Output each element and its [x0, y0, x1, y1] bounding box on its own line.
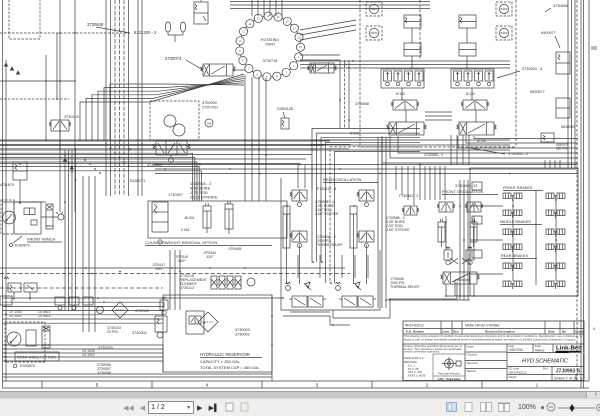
svg-text:3730718: 3730718 — [263, 59, 278, 63]
svg-text:3730848: 3730848 — [87, 22, 104, 27]
svg-text:unless otherwise specified.: unless otherwise specified. — [404, 351, 440, 354]
svg-text:By: By — [562, 330, 566, 334]
svg-text:Weight: Weight — [509, 375, 517, 379]
svg-text:BRAKE: BRAKE — [46, 225, 54, 228]
svg-text:1X 1010: 1X 1010 — [82, 353, 95, 357]
svg-text:1730947: 1730947 — [168, 193, 183, 197]
svg-text:3730023: 3730023 — [235, 328, 250, 332]
svg-text:REAR WINCH OPTION: REAR WINCH OPTION — [17, 356, 56, 360]
svg-text:3730212: 3730212 — [180, 286, 194, 290]
svg-text:NR37402012: NR37402012 — [405, 324, 424, 328]
svg-text:3730898: 3730898 — [355, 102, 369, 106]
svg-text:3730058: 3730058 — [97, 371, 111, 375]
svg-text:3730955 - 2: 3730955 - 2 — [424, 153, 443, 157]
svg-text:4: 4 — [206, 383, 209, 388]
svg-text:3730896: 3730896 — [553, 4, 568, 8]
svg-text:JOINT: JOINT — [265, 43, 276, 47]
svg-text:3790055: 3790055 — [202, 101, 217, 105]
svg-text:REAR BRAKES: REAR BRAKES — [501, 254, 528, 258]
svg-text:3730955 - 2: 3730955 - 2 — [508, 152, 528, 156]
svg-text:FRONT WINCH: FRONT WINCH — [27, 237, 55, 242]
svg-text:Approved: Approved — [467, 361, 479, 365]
svg-text:Check: Check — [575, 330, 584, 334]
svg-text:3730103: 3730103 — [64, 115, 79, 119]
svg-text:22.25 STROKE: 22.25 STROKE — [190, 195, 218, 200]
svg-text:FRONT BRAKES: FRONT BRAKES — [503, 186, 533, 190]
svg-text:R330879: R330879 — [15, 244, 30, 248]
svg-text:TOTAL SYSTEM CAP = 360 GAL: TOTAL SYSTEM CAP = 360 GAL — [200, 365, 260, 370]
svg-text:2700 PSI: 2700 PSI — [202, 106, 218, 110]
svg-text:3740449 - 12: 3740449 - 12 — [455, 184, 477, 188]
svg-text:350 PSI: 350 PSI — [556, 147, 567, 151]
svg-text:ROTATING: ROTATING — [261, 38, 279, 42]
svg-text:48.001: 48.001 — [184, 216, 194, 220]
svg-text:3730924 - 6: 3730924 - 6 — [522, 67, 542, 71]
svg-text:110°: 110° — [206, 254, 214, 259]
svg-text:Ø.190: Ø.190 — [350, 132, 359, 136]
svg-text:THERMAL RELIEF: THERMAL RELIEF — [390, 285, 420, 289]
svg-text:3730074: 3730074 — [165, 56, 182, 61]
svg-text:Zone: Zone — [442, 330, 449, 334]
svg-text:None: None — [535, 348, 545, 353]
svg-text:J7J0993 S: J7J0993 S — [556, 369, 581, 375]
svg-text:NR37402012: NR37402012 — [509, 371, 527, 375]
svg-text:Ø.130: Ø.130 — [466, 92, 475, 96]
svg-text:Ø.130: Ø.130 — [396, 92, 405, 96]
svg-text:Third Angle Projection: Third Angle Projection — [438, 373, 461, 376]
svg-text:MIDDLE BRAKES: MIDDLE BRAKES — [500, 220, 531, 224]
svg-text:REAR OSCILLATION: REAR OSCILLATION — [323, 177, 361, 182]
svg-text:1: 1 — [536, 383, 539, 388]
svg-text:COUNTERWEIGHT REMOVAL OPTION: COUNTERWEIGHT REMOVAL OPTION — [145, 240, 217, 245]
svg-text:2: 2 — [426, 383, 429, 388]
svg-text:2M: 2M — [207, 122, 212, 126]
svg-text:4711675: 4711675 — [0, 183, 14, 187]
svg-text:Material: Material — [467, 369, 477, 373]
svg-text:MADE FROM J7J0956S: MADE FROM J7J0956S — [465, 324, 500, 328]
svg-text:S: S — [580, 377, 583, 381]
svg-text:Date: Date — [548, 330, 555, 334]
svg-text:A: A — [593, 327, 596, 331]
svg-text:Rev: Rev — [453, 330, 459, 334]
svg-text:4.50" STROKE: 4.50" STROKE — [315, 212, 339, 216]
svg-text:3: 3 — [316, 383, 319, 388]
svg-text:HYD SCHEMATIC: HYD SCHEMATIC — [522, 358, 569, 364]
svg-text:Link-Belt: Link-Belt — [556, 346, 582, 352]
svg-text:J7R0408: J7R0408 — [228, 247, 241, 251]
svg-text:Drawn: Drawn — [467, 345, 475, 349]
svg-text:Checked: Checked — [467, 353, 478, 357]
svg-text:D3R0126: D3R0126 — [277, 107, 293, 111]
svg-text:4/30/2010: 4/30/2010 — [509, 348, 523, 352]
svg-text:6900677: 6900677 — [541, 31, 556, 35]
svg-text:BRAKE: BRAKE — [42, 344, 50, 347]
svg-text:F730412 - 4: F730412 - 4 — [317, 187, 336, 191]
svg-text:Ø.190: Ø.190 — [477, 139, 486, 143]
svg-text:6900677: 6900677 — [530, 90, 545, 94]
svg-text:110°: 110° — [178, 258, 186, 263]
svg-text:E830171: E830171 — [130, 179, 145, 183]
svg-text:.XXXX ± .0005: .XXXX ± .0005 — [407, 373, 426, 377]
svg-text:Sheet 1 of 2: Sheet 1 of 2 — [554, 376, 576, 381]
svg-text:HYDRAULIC RESERVOIR: HYDRAULIC RESERVOIR — [200, 352, 250, 357]
svg-text:3730001: 3730001 — [235, 333, 250, 337]
svg-text:3740002: 3740002 — [132, 331, 147, 335]
svg-text:4700122: 4700122 — [135, 309, 149, 313]
svg-text:6131200 - 2: 6131200 - 2 — [134, 30, 157, 35]
svg-text:190°: 190° — [155, 266, 164, 271]
svg-text:3730169: 3730169 — [98, 346, 113, 350]
svg-text:Rev: Rev — [543, 367, 548, 371]
svg-text:R330878: R330878 — [20, 364, 35, 368]
svg-text:Revision Description: Revision Description — [485, 330, 515, 334]
svg-text:5: 5 — [96, 383, 99, 388]
svg-text:E.O. Number: E.O. Number — [406, 330, 425, 334]
svg-text:CAPACITY = 250 GAL: CAPACITY = 250 GAL — [200, 359, 241, 364]
svg-text:whole or part, of design and d: whole or part, of design and details con… — [404, 337, 576, 341]
svg-text:0.051: 0.051 — [181, 228, 190, 232]
svg-text:CAD - Solid Edge: CAD - Solid Edge — [438, 377, 461, 381]
svg-text:Construction Equipment: Construction Equipment — [569, 351, 589, 354]
svg-text:THERM RELIEF: THERM RELIEF — [317, 243, 343, 247]
svg-text:20 PSI: 20 PSI — [107, 330, 118, 334]
svg-text:4.50" STROKE: 4.50" STROKE — [386, 228, 410, 232]
